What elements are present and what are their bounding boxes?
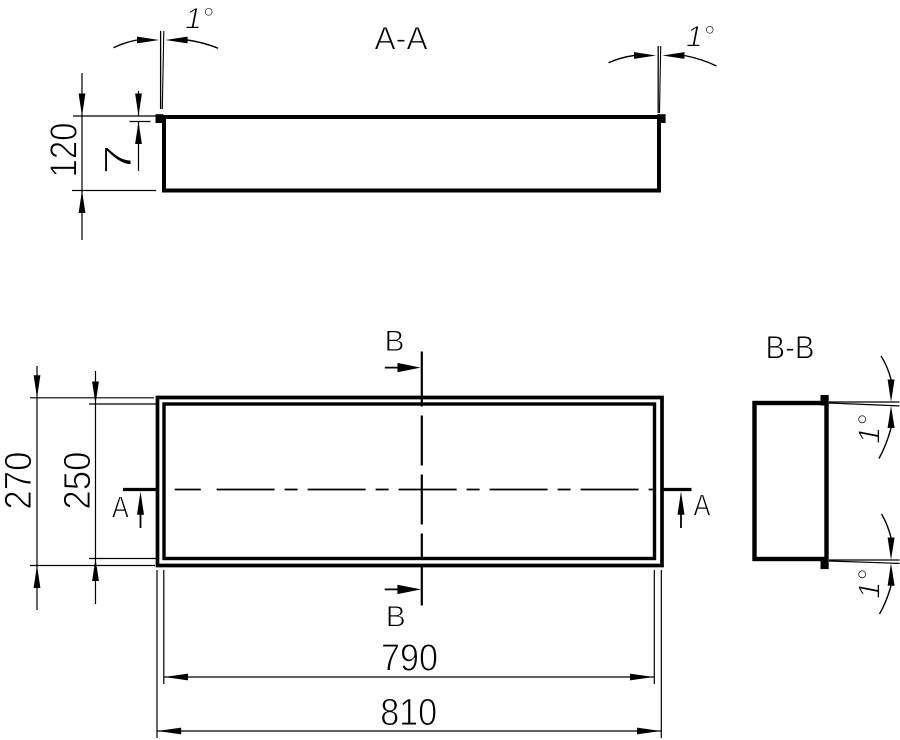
- dimension 7 text: [98, 145, 140, 175]
- svg-text:1°: 1°: [686, 21, 715, 54]
- svg-text:A: A: [694, 488, 711, 523]
- svg-text:B-B: B-B: [766, 330, 815, 366]
- svg-text:270: 270: [0, 452, 40, 510]
- A-A section profile outline: [164, 117, 659, 191]
- dimension 250 extension lines: [89, 404, 157, 559]
- front view inner opening rectangle: [164, 404, 655, 559]
- dimension 120 extension line top: [73, 115, 157, 117]
- B-B bottom 1 degree angular dimension arrows: [880, 514, 895, 614]
- B-B section box: [755, 403, 827, 559]
- label A right: [694, 488, 711, 523]
- svg-text:7: 7: [98, 145, 140, 175]
- dimension 270 extension lines: [30, 398, 155, 566]
- section A-A title: [374, 21, 428, 57]
- label A left: [112, 490, 129, 525]
- A-A left draft extension lines (1 degree): [161, 31, 164, 109]
- front view outer rectangle: [158, 398, 663, 566]
- section cut stub A right: [662, 488, 692, 491]
- section B-B title: [766, 330, 815, 366]
- label B top: [384, 325, 404, 358]
- section cut line B-B (vertical dashed): [421, 352, 423, 606]
- dimension 120 line and arrows: [79, 73, 86, 240]
- section arrow A left: [137, 492, 144, 529]
- svg-text:B: B: [384, 325, 404, 358]
- dimension 790 extension lines: [164, 570, 655, 684]
- svg-text:120: 120: [44, 123, 86, 178]
- B-B bottom 1 degree label: [852, 569, 887, 599]
- svg-text:250: 250: [57, 452, 99, 510]
- A-A right 1 degree label: [686, 21, 715, 54]
- dimension 790 line and arrows: [164, 674, 655, 681]
- dimension 250 line and arrows: [92, 371, 99, 604]
- dimension 790 text: [381, 638, 438, 680]
- B-B top 1 degree label: [852, 414, 887, 444]
- horizontal centerline: [175, 489, 653, 491]
- dimension 810 line and arrows: [157, 728, 661, 735]
- A-A left 1 degree label: [185, 3, 214, 36]
- B-B bottom lip: [821, 561, 829, 570]
- section arrow B bottom: [385, 585, 421, 594]
- dimension 120 extension line bottom: [72, 190, 156, 192]
- dimension 270 line and arrows: [34, 366, 41, 610]
- B-B top 1 degree angular dimension arrows: [879, 356, 895, 459]
- A-A right lip: [657, 114, 665, 123]
- svg-text:B: B: [386, 601, 406, 634]
- B-B bottom draft lines (1 degree): [829, 560, 900, 563]
- dimension 270 text: [0, 452, 40, 510]
- A-A right draft extension lines (1 degree): [658, 46, 661, 113]
- svg-text:1°: 1°: [852, 569, 887, 599]
- section cut stub A left: [123, 488, 157, 491]
- svg-text:1°: 1°: [852, 414, 887, 444]
- B-B top draft lines (1 degree): [829, 402, 900, 406]
- section arrow A right: [678, 492, 685, 529]
- B-B top lip: [821, 395, 829, 406]
- A-A right 1 degree angular dimension arrows: [609, 52, 717, 66]
- dimension 7 extension tick: [130, 121, 151, 123]
- dimension 120 text: [44, 123, 86, 178]
- svg-text:A: A: [112, 490, 129, 525]
- dimension 810 extension lines: [157, 570, 661, 738]
- svg-text:A-A: A-A: [374, 21, 428, 57]
- A-A left lip: [156, 114, 164, 123]
- label B bottom: [386, 601, 406, 634]
- dimension 810 text: [380, 692, 437, 734]
- svg-text:810: 810: [380, 692, 437, 734]
- svg-text:1°: 1°: [185, 3, 214, 36]
- svg-text:790: 790: [381, 638, 438, 680]
- A-A left 1 degree angular dimension arrows: [114, 37, 219, 49]
- dimension 7 line and arrows: [135, 91, 142, 171]
- section arrow B top: [385, 363, 421, 372]
- dimension 250 text: [57, 452, 99, 510]
